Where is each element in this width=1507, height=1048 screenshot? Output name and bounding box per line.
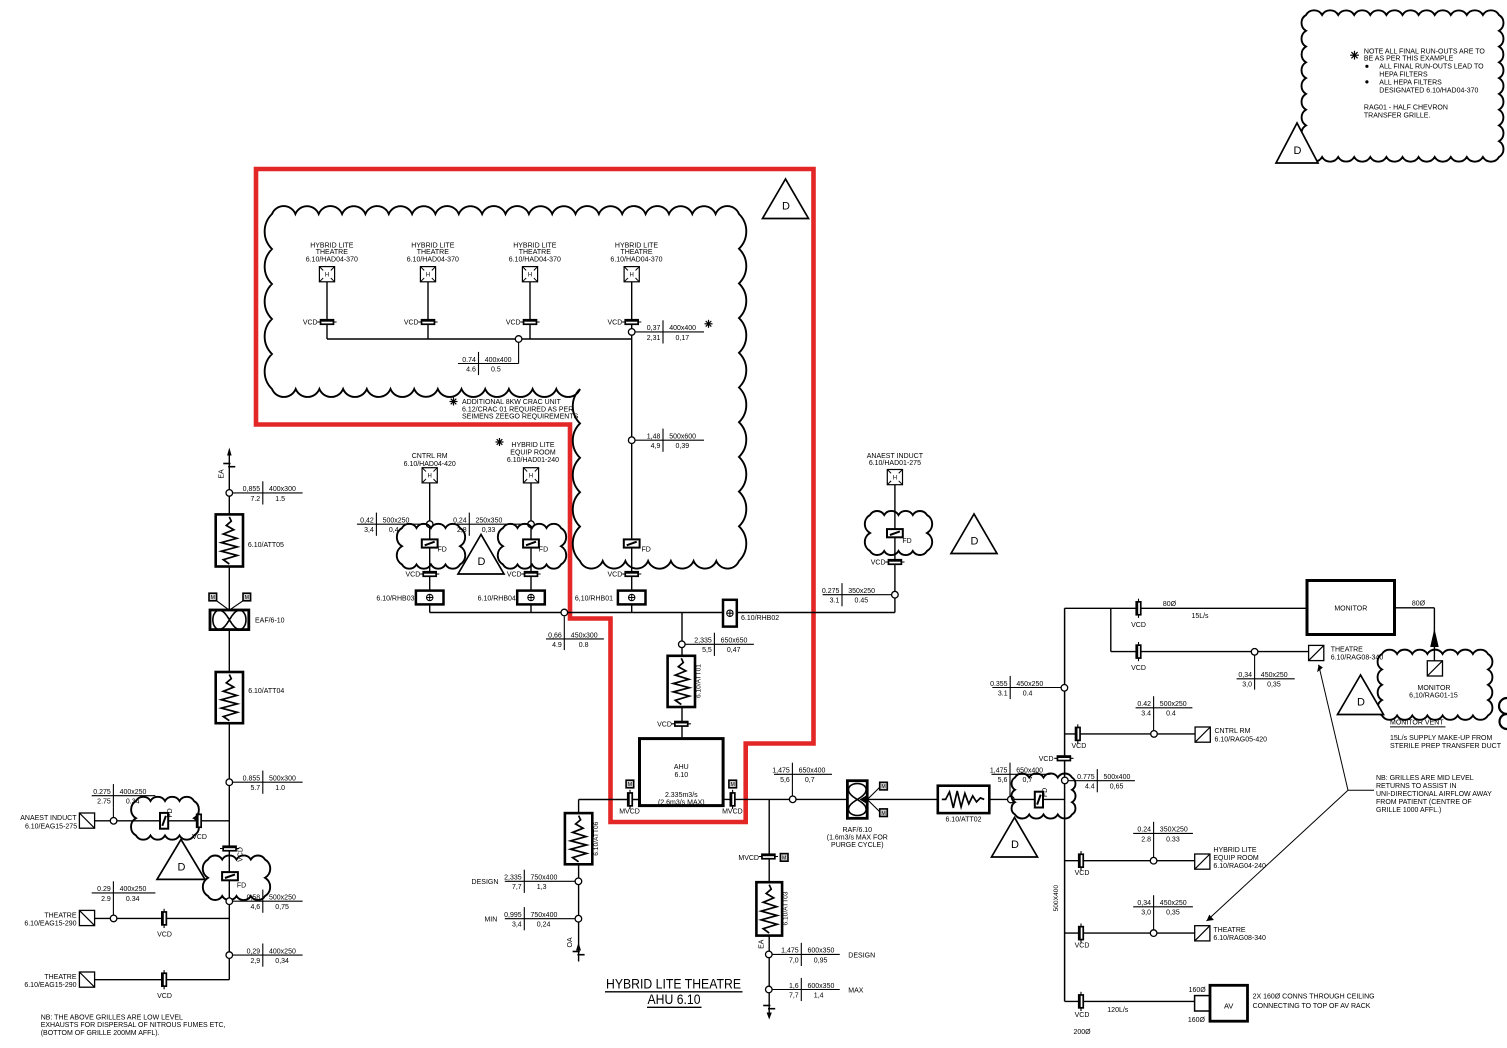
fire damper FD <box>222 872 238 880</box>
wire monitor out <box>1395 607 1435 609</box>
svg-text:650x650: 650x650 <box>721 638 748 645</box>
damper VCD <box>163 970 165 989</box>
duct break <box>223 463 230 465</box>
wire <box>427 282 429 340</box>
flow arrow <box>576 943 581 951</box>
svg-text:0,66: 0,66 <box>548 632 562 639</box>
reheat battery 6.10/RHB03 <box>416 591 444 605</box>
svg-text:VCD: VCD <box>157 932 172 939</box>
damper VCD <box>885 561 904 563</box>
fire damper FD drop4 <box>624 539 640 547</box>
svg-text:120L/s: 120L/s <box>1107 1007 1129 1014</box>
svg-text:1,475: 1,475 <box>772 768 790 775</box>
svg-text:M: M <box>881 811 885 817</box>
svg-text:0.4: 0.4 <box>1166 711 1176 718</box>
wire <box>631 282 633 340</box>
wire theatre2 branch <box>94 979 229 981</box>
damper VCD riser <box>1054 757 1073 759</box>
svg-text:VCD: VCD <box>1131 665 1146 672</box>
HEPA terminal 6.10/HAD01-240 <box>523 468 538 483</box>
svg-text:M: M <box>628 782 632 788</box>
AV box <box>1210 985 1248 1021</box>
attenuator 6.10/ATT05 <box>216 514 243 566</box>
svg-text:6.10/ATT04: 6.10/ATT04 <box>248 688 284 695</box>
svg-text:M: M <box>211 595 215 601</box>
svg-text:5,6: 5,6 <box>998 777 1008 784</box>
leader line <box>1348 789 1374 791</box>
svg-text:FD: FD <box>642 547 651 554</box>
svg-text:0,24: 0,24 <box>453 518 467 525</box>
AHU unit box <box>640 739 724 806</box>
svg-text:4.6: 4.6 <box>466 366 476 373</box>
grille 6.10/RAG05-420 <box>1195 727 1210 742</box>
svg-text:6.10: 6.10 <box>674 772 688 779</box>
reheat battery 6.10/RHB02 <box>723 600 737 627</box>
flow label 2,335 650x650 <box>685 643 754 645</box>
motorised damper MVCD <box>759 856 778 858</box>
AV rack connector <box>1195 996 1210 1011</box>
wire ANAEST drop <box>894 485 896 613</box>
HEPA terminal 6.10/HAD04-420 <box>422 468 437 483</box>
svg-text:0,995: 0,995 <box>504 912 522 919</box>
svg-text:GRILLE 1000 AFFL.): GRILLE 1000 AFFL.) <box>1376 807 1441 814</box>
svg-text:AHU 6.10: AHU 6.10 <box>648 992 701 1007</box>
svg-text:NOTE ALL FINAL RUN-OUTS ARE TO: NOTE ALL FINAL RUN-OUTS ARE TO <box>1364 48 1486 55</box>
flow label MIN 0,995 750x400 <box>505 918 575 920</box>
wire return riser <box>1064 608 1066 1001</box>
svg-text:NB: THE ABOVE GRILLES ARE LOW: NB: THE ABOVE GRILLES ARE LOW LEVEL <box>41 1015 183 1022</box>
fire damper FD <box>887 529 903 537</box>
fire damper FD <box>160 813 168 829</box>
svg-text:0,65: 0,65 <box>1110 784 1124 791</box>
svg-text:450x250: 450x250 <box>1261 672 1288 679</box>
svg-text:MVCD: MVCD <box>722 808 743 815</box>
fire damper FD <box>1035 792 1043 808</box>
node junction <box>789 796 796 803</box>
wire AHU to RAF <box>723 798 847 800</box>
svg-text:SEIMENS ZEEGO REQUIREMENTS: SEIMENS ZEEGO REQUIREMENTS <box>462 414 579 421</box>
wire monitor down <box>1433 608 1435 661</box>
svg-text:6.10/ATT03: 6.10/ATT03 <box>783 891 790 925</box>
svg-text:RAF/6.10: RAF/6.10 <box>843 827 873 834</box>
svg-text:400x250: 400x250 <box>120 789 147 796</box>
flow label DESIGN 1,475 600x350 <box>773 953 840 955</box>
svg-text:350x250: 350x250 <box>848 588 875 595</box>
svg-text:ALL HEPA FILTERS: ALL HEPA FILTERS <box>1379 79 1442 86</box>
svg-text:STERILE PREP TRANSFER DUCT: STERILE PREP TRANSFER DUCT <box>1390 743 1502 750</box>
svg-text:5.7: 5.7 <box>250 785 260 792</box>
svg-text:THEATRE: THEATRE <box>417 249 449 256</box>
svg-text:0,29: 0,29 <box>247 948 261 955</box>
svg-text:FD: FD <box>438 547 447 554</box>
svg-text:0.42: 0.42 <box>1137 701 1151 708</box>
svg-text:400x250: 400x250 <box>120 886 147 893</box>
svg-text:FD: FD <box>539 547 548 554</box>
label HYBRID LITE EQUIP ROOM <box>496 441 504 443</box>
edge scallops <box>1499 698 1507 714</box>
svg-text:HEPA FILTERS: HEPA FILTERS <box>1379 71 1428 78</box>
damper VCD <box>1080 924 1082 943</box>
svg-text:1,4: 1,4 <box>814 992 824 999</box>
asterisk note <box>1350 54 1359 56</box>
svg-text:FROM PATIENT (CENTRE OF: FROM PATIENT (CENTRE OF <box>1376 799 1472 806</box>
leader to lower grille <box>1207 790 1349 921</box>
wire AV branch <box>1065 1000 1195 1002</box>
grille 6.10/RAG08-340 top <box>1309 645 1324 660</box>
svg-text:6.10/ATT05: 6.10/ATT05 <box>248 542 284 549</box>
svg-text:6.12/CRAC 01 REQUIRED AS PER: 6.12/CRAC 01 REQUIRED AS PER <box>462 406 573 413</box>
damper VCD <box>1080 851 1082 870</box>
attenuator 6.10/ATT01 <box>668 656 695 707</box>
svg-text:2,9: 2,9 <box>250 958 260 965</box>
flow label 0.74 400x400 <box>458 363 519 365</box>
revision cloud FD cntrl <box>397 524 465 569</box>
svg-text:UNI-DIRECTIONAL AIRFLOW AWAY: UNI-DIRECTIONAL AIRFLOW AWAY <box>1376 791 1492 798</box>
svg-text:6.10/HAD04-370: 6.10/HAD04-370 <box>509 256 561 263</box>
triangle D note <box>1276 123 1318 163</box>
svg-text:ALL FINAL RUN-OUTS LEAD TO: ALL FINAL RUN-OUTS LEAD TO <box>1379 64 1484 71</box>
svg-text:0,35: 0,35 <box>1166 910 1180 917</box>
svg-text:D: D <box>1357 697 1365 709</box>
svg-text:HYBRID LITE: HYBRID LITE <box>511 442 555 449</box>
svg-text:0,35: 0,35 <box>1267 682 1281 689</box>
svg-text:VCD: VCD <box>157 993 172 1000</box>
svg-text:1,48: 1,48 <box>647 434 661 441</box>
svg-text:1,475: 1,475 <box>990 768 1008 775</box>
svg-text:750x400: 750x400 <box>531 875 558 882</box>
wire ATT01 drop <box>681 613 683 739</box>
svg-text:0,34: 0,34 <box>1238 672 1252 679</box>
svg-text:1,475: 1,475 <box>781 948 799 955</box>
svg-text:6.10/RAG04-240: 6.10/RAG04-240 <box>1213 863 1266 870</box>
damper VCD <box>520 321 539 323</box>
svg-text:D: D <box>782 201 790 213</box>
svg-text:H: H <box>529 474 533 480</box>
svg-text:500x250: 500x250 <box>269 895 296 902</box>
svg-text:0,7: 0,7 <box>1023 777 1033 784</box>
flow label 0,58 500x250 <box>233 900 303 902</box>
svg-text:AV: AV <box>1224 1002 1233 1011</box>
svg-text:2,335: 2,335 <box>694 638 712 645</box>
svg-text:0.4: 0.4 <box>1023 690 1033 697</box>
revision cloud FD exhaust main <box>203 855 270 900</box>
flow label 0,34 450x250 top <box>1254 655 1256 690</box>
svg-text:EA: EA <box>759 939 766 949</box>
svg-text:M: M <box>782 856 786 862</box>
svg-text:4.9: 4.9 <box>552 642 562 649</box>
svg-text:15L/s SUPPLY MAKE-UP FROM: 15L/s SUPPLY MAKE-UP FROM <box>1390 735 1492 742</box>
svg-text:160Ø: 160Ø <box>1188 1017 1206 1024</box>
svg-text:6.10/HAD01-275: 6.10/HAD01-275 <box>869 460 921 467</box>
svg-text:6.10/HAD01-240: 6.10/HAD01-240 <box>507 457 559 464</box>
svg-text:VCD: VCD <box>507 572 522 579</box>
svg-text:VCD: VCD <box>1075 942 1090 949</box>
svg-text:0.29: 0.29 <box>97 886 111 893</box>
svg-text:0,37: 0,37 <box>647 325 661 332</box>
svg-text:2,31: 2,31 <box>647 335 661 342</box>
svg-text:RETURNS TO ASSIST IN: RETURNS TO ASSIST IN <box>1376 783 1457 790</box>
revision cloud monitor vent <box>1378 650 1493 720</box>
svg-text:VCD: VCD <box>1075 870 1090 877</box>
svg-text:6,10/RAG01-15: 6,10/RAG01-15 <box>1409 693 1458 700</box>
motor box M <box>880 782 888 790</box>
motorised damper MVCD <box>629 790 631 809</box>
svg-text:0,855: 0,855 <box>243 486 261 493</box>
svg-text:MONITOR VENT: MONITOR VENT <box>1390 720 1444 727</box>
svg-text:0.74: 0.74 <box>462 357 476 364</box>
duct break <box>573 951 580 953</box>
revision cloud note <box>1302 10 1504 161</box>
svg-text:H: H <box>428 474 432 480</box>
wire theatre1 branch <box>94 917 229 919</box>
damper VCD <box>163 909 165 928</box>
attenuator 6.10/ATT02 <box>938 786 990 813</box>
svg-text:7,0: 7,0 <box>789 957 799 964</box>
flow label 0.275 350x250 <box>823 594 892 596</box>
svg-text:ANAEST INDUCT: ANAEST INDUCT <box>867 453 924 460</box>
svg-text:FD: FD <box>1042 788 1049 797</box>
red revision boundary <box>256 169 814 822</box>
svg-text:0,75: 0,75 <box>275 904 289 911</box>
svg-text:0.34: 0.34 <box>126 896 140 903</box>
wire drop to theatre line <box>1110 608 1112 651</box>
svg-text:DESIGN: DESIGN <box>848 952 875 959</box>
svg-text:6.10/RHB02: 6.10/RHB02 <box>741 615 779 622</box>
svg-text:FD: FD <box>167 808 174 817</box>
svg-text:0,34: 0,34 <box>1137 900 1151 907</box>
svg-text:VCD: VCD <box>608 572 623 579</box>
svg-text:0.355: 0.355 <box>990 681 1008 688</box>
flow label DESIGN 2,335 750x400 <box>505 880 575 882</box>
svg-text:HYBRID LITE THEATRE: HYBRID LITE THEATRE <box>606 976 741 991</box>
wire exhaust main <box>228 723 230 980</box>
svg-text:CNTRL RM: CNTRL RM <box>412 453 448 460</box>
svg-text:RAG01 - HALF CHEVRON: RAG01 - HALF CHEVRON <box>1364 105 1448 112</box>
flow label 0,855 400x300 <box>233 492 303 494</box>
svg-text:2,335: 2,335 <box>504 875 522 882</box>
leader to top grille <box>1319 665 1348 791</box>
flow label 0.24 350X250 <box>1133 832 1193 834</box>
flow label 1,475 650x400 (b) <box>992 773 1051 775</box>
grille 6.10/EAG15-290 <box>79 910 94 925</box>
svg-text:0,95: 0,95 <box>814 957 828 964</box>
svg-text:0.275: 0.275 <box>822 588 840 595</box>
exhaust fan RAF/6.10 <box>847 781 867 819</box>
HEPA terminal 6.10/HAD01-275 <box>887 470 902 485</box>
flow label 1,475 650x400 (a) <box>774 773 832 775</box>
svg-text:VCD: VCD <box>657 721 672 728</box>
damper VCD <box>622 573 641 575</box>
svg-text:DESIGNATED 6.10/HAD04-370: DESIGNATED 6.10/HAD04-370 <box>1379 88 1478 95</box>
note additional CRAC unit <box>450 401 458 403</box>
grille 6.10/EAG15-290 b <box>79 972 94 987</box>
wire <box>326 282 328 340</box>
MONITOR box <box>1307 581 1395 635</box>
flow label 0,29 400x250 main <box>233 954 303 956</box>
asterisk <box>705 323 713 325</box>
svg-text:EA: EA <box>219 469 226 479</box>
svg-text:D: D <box>1294 145 1302 157</box>
svg-text:2.9: 2.9 <box>101 896 111 903</box>
svg-text:200Ø: 200Ø <box>1073 1029 1091 1036</box>
flow label 0.29 400x250 <box>92 892 156 894</box>
damper VCD <box>672 723 691 725</box>
svg-text:6.10/RHB03: 6.10/RHB03 <box>376 595 414 602</box>
svg-text:400x300: 400x300 <box>269 486 296 493</box>
svg-text:80Ø: 80Ø <box>1163 601 1177 608</box>
svg-text:THEATRE: THEATRE <box>519 249 551 256</box>
wire drop4 continues <box>631 339 633 613</box>
svg-text:THEATRE: THEATRE <box>316 249 348 256</box>
wire OA elbow <box>578 800 580 814</box>
svg-text:VCD: VCD <box>1072 743 1087 750</box>
revision cloud FD exhaust anaest <box>131 797 199 840</box>
svg-text:FD: FD <box>237 882 246 889</box>
svg-text:VCD: VCD <box>1131 622 1146 629</box>
wire equip branch <box>1065 860 1195 862</box>
svg-text:0,33: 0,33 <box>482 527 496 534</box>
svg-text:MAX: MAX <box>848 988 864 995</box>
svg-text:H: H <box>893 476 897 482</box>
triangle D monitor <box>1338 675 1384 715</box>
exhaust fan EAF/6-10 <box>210 610 249 630</box>
svg-text:3,0: 3,0 <box>1141 910 1151 917</box>
svg-text:400x400: 400x400 <box>669 325 696 332</box>
svg-text:(BOTTOM OF GRILLE 200MM AFFL).: (BOTTOM OF GRILLE 200MM AFFL). <box>41 1030 160 1037</box>
svg-text:3.1: 3.1 <box>998 690 1008 697</box>
svg-text:2X 160Ø CONNS THROUGH CEILING: 2X 160Ø CONNS THROUGH CEILING <box>1253 994 1375 1001</box>
svg-text:0.775: 0.775 <box>1077 774 1095 781</box>
svg-text:350X250: 350X250 <box>1160 827 1188 834</box>
svg-text:3.4: 3.4 <box>1141 711 1151 718</box>
damper VCD monitor line <box>1138 599 1140 618</box>
svg-text:6.10/HAD04-370: 6.10/HAD04-370 <box>306 256 358 263</box>
svg-text:2.335m3/s: 2.335m3/s <box>665 792 698 799</box>
flow label 0,24 250x350 <box>451 523 528 525</box>
flow label 0,66 450x300 <box>563 617 565 651</box>
svg-text:THEATRE: THEATRE <box>1213 927 1245 934</box>
reheat battery 6.10/RHB04 <box>517 591 545 605</box>
wire RAF to ATT02 <box>867 798 938 800</box>
svg-text:5,6: 5,6 <box>780 777 790 784</box>
svg-text:ANAEST INDUCT: ANAEST INDUCT <box>20 815 77 822</box>
svg-text:EQUIP ROOM: EQUIP ROOM <box>1213 855 1259 862</box>
svg-text:VCD: VCD <box>404 320 419 327</box>
wire branch to 0.74 label <box>518 339 520 364</box>
svg-text:500x250: 500x250 <box>1160 701 1187 708</box>
svg-text:6.10/ATT01: 6.10/ATT01 <box>696 664 703 698</box>
wire exhaust main top <box>228 455 230 514</box>
svg-text:6.10/EAG15-275: 6.10/EAG15-275 <box>25 823 77 830</box>
svg-text:VCD: VCD <box>608 320 623 327</box>
revision cloud - hybrid theatre supply zone (L-shape) <box>265 206 747 569</box>
svg-text:THEATRE: THEATRE <box>620 249 652 256</box>
wire riser top to monitor <box>1065 607 1307 609</box>
svg-text:D: D <box>478 556 486 568</box>
wire OA down <box>578 864 580 961</box>
damper VCD <box>622 321 641 323</box>
svg-text:EXHAUSTS FOR DISPERSAL OF NITR: EXHAUSTS FOR DISPERSAL OF NITROUS FUMES … <box>41 1022 226 1029</box>
svg-text:MONITOR: MONITOR <box>1418 685 1451 692</box>
revision cloud FD equip <box>498 524 566 569</box>
damper VCD main <box>220 848 239 850</box>
fire damper FD <box>523 539 539 547</box>
svg-text:600x350: 600x350 <box>808 983 835 990</box>
svg-text:400x400: 400x400 <box>485 357 512 364</box>
svg-text:VCD: VCD <box>192 834 207 841</box>
flow label 0,42 500x250 <box>357 523 427 525</box>
flow label 0.775 500x400 <box>1068 780 1135 782</box>
svg-text:2,8: 2,8 <box>457 527 467 534</box>
motorised damper MVCD <box>732 790 734 809</box>
svg-text:VCD: VCD <box>1075 1012 1090 1019</box>
svg-text:0,42: 0,42 <box>360 518 374 525</box>
svg-text:(1.6m3/s MAX FOR: (1.6m3/s MAX FOR <box>827 834 888 841</box>
svg-text:15L/s: 15L/s <box>1191 613 1209 620</box>
svg-text:6.10/RAG08-340: 6.10/RAG08-340 <box>1213 935 1266 942</box>
svg-text:160Ø: 160Ø <box>1189 987 1207 994</box>
svg-text:6.10/HAD04-370: 6.10/HAD04-370 <box>610 256 662 263</box>
flow label 0,37 400x400 <box>635 331 704 333</box>
svg-text:OA: OA <box>567 937 574 947</box>
flow label 0.42 500x250 return <box>1136 707 1193 709</box>
wire supply manifold <box>430 612 895 614</box>
svg-text:M: M <box>731 782 735 788</box>
flow label 0.855 500x300 <box>233 781 303 783</box>
wire M links <box>216 601 229 611</box>
svg-text:0.855: 0.855 <box>243 776 261 783</box>
svg-text:VCD: VCD <box>506 320 521 327</box>
svg-text:D: D <box>178 861 186 873</box>
svg-text:TRANSFER GRILLE.: TRANSFER GRILLE. <box>1364 113 1431 120</box>
flow label 0,34 450x250 return <box>1133 906 1193 908</box>
svg-text:6.10/RAG05-420: 6.10/RAG05-420 <box>1215 736 1268 743</box>
reheat battery 6.10/RHB01 <box>618 591 646 605</box>
revision cloud FD return <box>1011 773 1075 818</box>
fire damper FD <box>422 539 438 547</box>
svg-text:5,5: 5,5 <box>702 647 712 654</box>
svg-text:0.33: 0.33 <box>1166 836 1180 843</box>
wire <box>529 282 531 340</box>
svg-text:EAF/6-10: EAF/6-10 <box>255 617 285 624</box>
motor box M <box>209 593 217 601</box>
svg-text:VCD: VCD <box>303 320 318 327</box>
svg-text:0,34: 0,34 <box>275 958 289 965</box>
grille 6.10/RAG01-15 <box>1427 661 1442 676</box>
svg-text:0,7: 0,7 <box>805 777 815 784</box>
flow label 0.355 450x250 <box>992 687 1061 689</box>
svg-text:0.5: 0.5 <box>491 366 501 373</box>
triangle D exhaust <box>157 839 205 879</box>
svg-text:1,3: 1,3 <box>537 884 547 891</box>
svg-text:7,7: 7,7 <box>512 884 522 891</box>
wire CNTRL RM drop <box>429 482 431 613</box>
triangle D top <box>763 179 809 219</box>
wire <box>228 630 230 672</box>
svg-text:6.10/RAG08-340: 6.10/RAG08-340 <box>1331 654 1384 661</box>
svg-text:500x400: 500x400 <box>1104 774 1131 781</box>
svg-text:(2,6m3/s MAX): (2,6m3/s MAX) <box>658 800 705 807</box>
damper VCD <box>317 321 336 323</box>
svg-text:DESIGN: DESIGN <box>472 879 499 886</box>
grille 6.10/EAG15-275 <box>79 813 94 828</box>
svg-text:NB: GRILLES ARE MID LEVEL: NB: GRILLES ARE MID LEVEL <box>1376 775 1474 782</box>
grille 6.10/RAG08-340 b <box>1195 926 1210 941</box>
svg-text:H: H <box>426 273 430 279</box>
svg-text:6.10/EAG15-290: 6.10/EAG15-290 <box>24 921 76 928</box>
svg-text:THEATRE: THEATRE <box>1331 646 1363 653</box>
svg-text:FD: FD <box>902 538 911 545</box>
